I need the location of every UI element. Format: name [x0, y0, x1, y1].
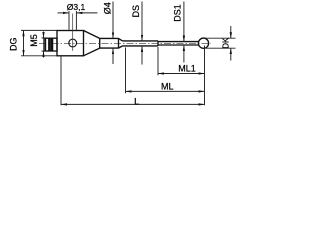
svg-text:DS1: DS1 [172, 4, 182, 22]
dimension M5 [42, 32, 47, 58]
svg-text:DS: DS [131, 5, 141, 18]
thread M5 stub [44, 38, 57, 51]
hole centerline vertical [72, 14, 74, 51]
body DG [57, 31, 84, 56]
centerline [39, 42, 211, 44]
dimension DS [141, 2, 143, 65]
dimension Ø3,1 [58, 11, 98, 30]
svg-text:L: L [134, 97, 139, 107]
extension line right (ball) [204, 46, 206, 106]
dimension DS1 [183, 2, 185, 63]
svg-text:M5: M5 [29, 34, 39, 47]
dimension L [61, 103, 205, 105]
dimension DK [205, 26, 236, 61]
taper cone [84, 31, 100, 56]
dimension Ø4 [112, 2, 114, 65]
stem DS1 [158, 42, 199, 45]
svg-text:DK: DK [222, 37, 231, 49]
dimension ML1 [158, 73, 205, 75]
svg-text:ML1: ML1 [178, 63, 196, 73]
extension line L left [60, 56, 62, 105]
shaft Ø4 [100, 38, 123, 48]
dimension DG [21, 30, 57, 55]
extension line ML1 left [157, 47, 159, 75]
svg-text:Ø4: Ø4 [102, 2, 112, 14]
svg-text:DG: DG [8, 37, 18, 51]
extension line ML left [125, 48, 127, 94]
svg-text:ML: ML [161, 82, 174, 92]
dimension ML [126, 90, 205, 92]
hole cross-drilled [69, 39, 77, 47]
ball DK [198, 38, 208, 48]
svg-text:Ø3,1: Ø3,1 [67, 2, 86, 12]
stem DS [123, 41, 159, 46]
